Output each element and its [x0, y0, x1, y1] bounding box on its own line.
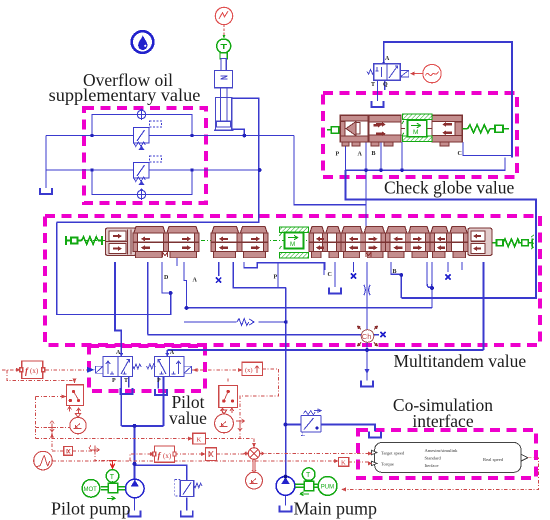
svg-text:T: T [371, 82, 375, 88]
svg-text:Iterface: Iterface [425, 463, 439, 468]
svg-text:P: P [336, 152, 340, 158]
svg-text:(x): (x) [245, 367, 253, 374]
svg-text:Ch: Ch [362, 332, 372, 341]
svg-text:A: A [193, 278, 198, 284]
svg-text:Torque: Torque [381, 462, 394, 467]
svg-text:M: M [413, 129, 418, 136]
svg-text:supplementary value: supplementary value [49, 85, 201, 105]
svg-text:interface: interface [412, 411, 473, 431]
svg-text:D: D [164, 275, 169, 281]
svg-text:Check globe value: Check globe value [384, 178, 514, 198]
svg-text:B: B [393, 269, 397, 275]
svg-text:PUM: PUM [321, 485, 334, 491]
svg-text:A: A [385, 56, 390, 62]
svg-text:K: K [341, 460, 346, 467]
svg-text:Multitandem value: Multitandem value [394, 351, 527, 371]
svg-text:A: A [358, 152, 363, 158]
svg-text:Target speed: Target speed [381, 451, 405, 456]
svg-text:C: C [458, 151, 462, 157]
svg-text:A: A [116, 350, 121, 356]
svg-text:MOT: MOT [84, 487, 98, 493]
svg-text:P: P [157, 378, 161, 384]
svg-text:T: T [110, 474, 115, 481]
svg-text:M: M [290, 241, 295, 248]
svg-text:K: K [197, 437, 202, 444]
svg-text:T: T [306, 472, 311, 479]
svg-text:A: A [170, 350, 175, 356]
svg-text:Pilot pump: Pilot pump [51, 499, 131, 519]
svg-text:(x): (x) [163, 452, 172, 460]
svg-text:C: C [328, 272, 332, 278]
svg-text:Q: Q [383, 82, 388, 88]
svg-text:Main pump: Main pump [294, 499, 378, 519]
svg-text:(x): (x) [30, 367, 39, 375]
svg-text:Real speed: Real speed [483, 457, 504, 462]
svg-text:Standard: Standard [425, 456, 442, 461]
svg-text:Amesim/simulink: Amesim/simulink [425, 448, 459, 453]
svg-text:P: P [112, 378, 116, 384]
svg-text:P: P [274, 275, 278, 281]
svg-text:value: value [169, 408, 207, 428]
svg-text:T: T [124, 378, 128, 384]
svg-text:B: B [372, 151, 376, 157]
